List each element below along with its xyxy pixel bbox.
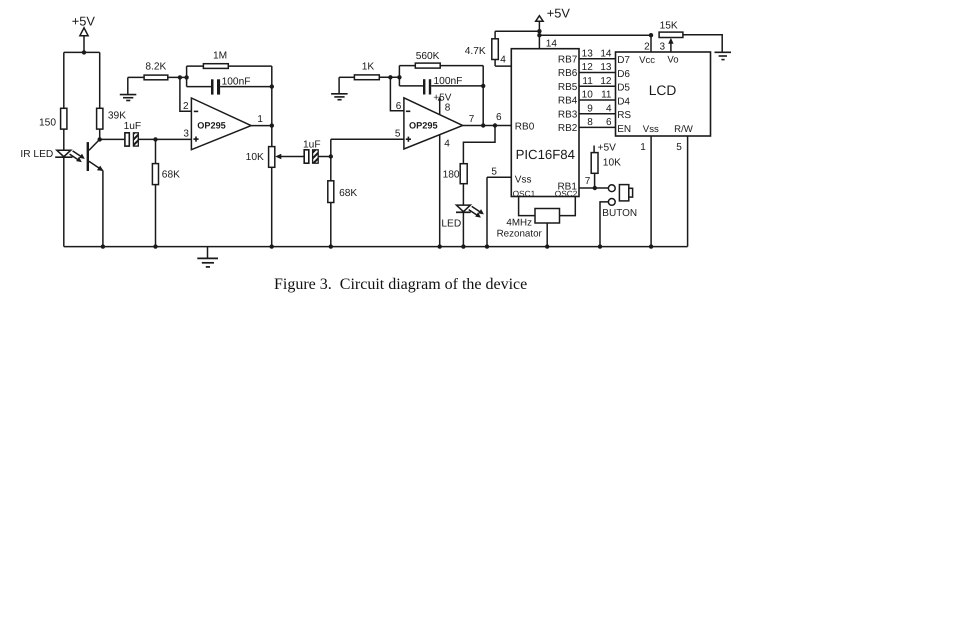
node: pin3 junction: [153, 137, 157, 141]
svg-text:15K: 15K: [660, 20, 678, 31]
wire to op-amp 2 pin 5: [331, 138, 404, 140]
node: [485, 244, 489, 248]
node: [184, 75, 188, 79]
svg-text:IR LED: IR LED: [20, 149, 53, 160]
svg-text:D7: D7: [617, 55, 630, 66]
svg-text:EN: EN: [617, 124, 631, 135]
svg-text:6: 6: [496, 112, 502, 123]
wire: [63, 129, 65, 150]
svg-text:RB2: RB2: [558, 123, 578, 134]
wire: [168, 76, 187, 78]
svg-text:8: 8: [587, 117, 593, 128]
svg-text:12: 12: [582, 62, 594, 73]
svg-text:R/W: R/W: [674, 124, 694, 135]
wire: +5V rail to 4.7K: [495, 30, 539, 32]
svg-text:5: 5: [395, 129, 401, 140]
svg-text:4: 4: [606, 103, 612, 114]
svg-text:Vss: Vss: [515, 174, 532, 185]
capacitor C1 1uF: [100, 121, 156, 146]
node: top rail of sensor branch: [64, 50, 100, 54]
wire: [63, 52, 65, 108]
svg-text:1K: 1K: [362, 62, 375, 73]
svg-text:RB6: RB6: [558, 68, 578, 79]
svg-text:+5V: +5V: [72, 13, 96, 28]
svg-text:LED: LED: [441, 218, 461, 229]
svg-text:RB1: RB1: [557, 182, 577, 193]
svg-text:11: 11: [601, 90, 612, 101]
wire: [271, 167, 273, 246]
phototransistor Q1: [88, 139, 104, 171]
svg-text:11: 11: [582, 76, 593, 87]
svg-text:5: 5: [676, 142, 682, 153]
svg-text:PIC16F84: PIC16F84: [516, 147, 575, 162]
wire: +5V rail to LCD Vcc: [539, 34, 651, 36]
node: [329, 244, 333, 248]
resistor 39K: [97, 108, 127, 129]
light arrows from LED: [469, 206, 484, 217]
pushbutton BUTON: [600, 185, 637, 247]
svg-text:560K: 560K: [416, 51, 440, 62]
svg-text:9: 9: [587, 103, 593, 114]
svg-text:3: 3: [659, 41, 665, 52]
svg-text:39K: 39K: [108, 110, 126, 121]
potentiometer 10K: [246, 147, 305, 168]
svg-text:RB4: RB4: [558, 96, 578, 107]
wire: feedback right vertical: [482, 66, 484, 126]
node: [649, 244, 653, 248]
svg-text:1uF: 1uF: [124, 121, 142, 132]
svg-text:1: 1: [257, 114, 263, 125]
svg-text:RS: RS: [617, 110, 631, 121]
svg-text:+5V: +5V: [598, 142, 617, 153]
wire to LED branch: [463, 126, 495, 164]
svg-text:4MHz: 4MHz: [506, 217, 532, 228]
svg-text:2: 2: [183, 101, 189, 112]
svg-text:1M: 1M: [213, 50, 227, 61]
node: [461, 244, 465, 248]
wire: [99, 52, 101, 108]
resistor 1M feedback: [187, 50, 272, 68]
wire: emitter down: [102, 171, 104, 247]
svg-text:D5: D5: [617, 83, 630, 94]
svg-text:150: 150: [39, 117, 56, 128]
svg-text:13: 13: [600, 62, 612, 73]
svg-text:6: 6: [396, 101, 402, 112]
wire: LCD Vcc pin 2: [644, 33, 653, 52]
node: [388, 75, 392, 79]
node: [178, 75, 182, 79]
svg-text:4: 4: [500, 55, 506, 66]
IR LED D1: [20, 149, 72, 160]
svg-text:8.2K: 8.2K: [145, 62, 166, 73]
wire: [462, 212, 464, 246]
svg-text:2: 2: [644, 41, 650, 52]
resistor 180: [443, 164, 468, 184]
svg-text:D4: D4: [617, 96, 630, 107]
wire: [379, 76, 399, 78]
node: [397, 75, 401, 79]
svg-text:+5V: +5V: [547, 6, 571, 21]
wire: [271, 126, 273, 147]
svg-text:10K: 10K: [246, 152, 264, 163]
node: [481, 123, 485, 127]
svg-text:Vo: Vo: [667, 55, 678, 66]
svg-text:5: 5: [491, 167, 497, 178]
capacitor C3 1uF coupling: [303, 139, 331, 163]
wire to op-amp pin 3: [156, 138, 192, 140]
wire: U2 output to PIC RB0: [463, 125, 512, 127]
svg-text:10K: 10K: [603, 158, 621, 169]
svg-text:7: 7: [469, 114, 475, 125]
svg-text:1uF: 1uF: [303, 139, 321, 150]
svg-text:Vcc: Vcc: [639, 55, 655, 66]
svg-text:1: 1: [640, 142, 646, 153]
resistor 68K (stage 2 bias): [328, 181, 358, 247]
svg-text:68K: 68K: [162, 170, 180, 181]
svg-text:RB0: RB0: [515, 121, 535, 132]
wire: 15K to ground: [683, 35, 722, 52]
svg-text:Vss: Vss: [643, 124, 659, 135]
node: [598, 244, 602, 248]
wire: LCD Vss pin 1 to ground rail: [640, 136, 651, 247]
svg-text:RB3: RB3: [558, 109, 578, 120]
ground rail (bottom): [64, 246, 688, 248]
resistor 4.7K (MCLR pullup): [465, 31, 512, 66]
svg-text:OP295: OP295: [409, 121, 438, 131]
potentiometer 15K contrast: [659, 20, 683, 37]
resistor 10K pullup RB1: [591, 142, 621, 188]
wire: [339, 76, 354, 78]
resistor 1K: [354, 62, 379, 80]
svg-text:8: 8: [445, 103, 451, 114]
wire: LCD Vo pin 3 wiper arrow: [659, 38, 673, 52]
ground (8.2K input): [120, 77, 137, 100]
resistor 560K feedback: [399, 51, 483, 68]
capacitor 100nF feedback 2: [399, 76, 485, 94]
wire: LCD R/W pin 5 to ground rail: [676, 136, 687, 247]
wire to op-amp pin 2: [180, 77, 192, 111]
op-amp U2 OP295: [395, 98, 475, 149]
PIC-LCD bus wires with pin numbers: [558, 49, 631, 67]
svg-text:3: 3: [183, 129, 189, 140]
+5V supply (PIC / LCD): [536, 6, 571, 49]
svg-text:Rezonator: Rezonator: [497, 228, 543, 239]
svg-text:D6: D6: [617, 69, 630, 80]
resistor 150: [39, 108, 67, 129]
node: [545, 244, 549, 248]
node: [438, 244, 442, 248]
node: [270, 244, 274, 248]
wire: OSC1 to resonator: [519, 197, 535, 216]
wire: [63, 157, 65, 246]
node: [101, 244, 105, 248]
resistor 8.2K: [144, 62, 168, 80]
node: [329, 154, 333, 158]
wire: output pin 1: [251, 125, 272, 127]
caption: [274, 276, 774, 294]
svg-text:100nF: 100nF: [222, 76, 251, 87]
ground (1K input): [331, 77, 348, 99]
wire: [128, 76, 144, 78]
svg-text:14: 14: [600, 49, 612, 60]
IC PIC16F84: [511, 39, 579, 199]
node: [153, 244, 157, 248]
svg-text:13: 13: [582, 49, 594, 60]
wire: RB1 pin 7: [579, 176, 608, 190]
pin 8 +5V supply of U2: [433, 93, 451, 115]
wire: feedback right vertical: [271, 66, 273, 126]
svg-text:LCD: LCD: [649, 83, 677, 98]
pin 4 ground wire of U2: [440, 135, 451, 247]
svg-text:180: 180: [443, 169, 460, 180]
IC LCD module: [616, 52, 711, 136]
svg-text:BUTON: BUTON: [602, 208, 637, 219]
svg-text:6: 6: [606, 117, 612, 128]
ground (15K): [715, 52, 732, 59]
node: collector junction: [98, 137, 102, 141]
op-amp U1 OP295: [183, 98, 263, 150]
LED indicator: [441, 205, 470, 229]
svg-text:14: 14: [546, 39, 558, 50]
svg-text:RB7: RB7: [558, 54, 578, 65]
svg-text:OSC1: OSC1: [513, 188, 536, 198]
svg-text:10: 10: [582, 90, 594, 101]
node: [493, 123, 497, 127]
wire: feedback branch vertical: [398, 66, 400, 86]
wire: [330, 139, 332, 181]
wire: Vss of PIC to ground: [487, 167, 511, 247]
4MHz resonator: [497, 209, 560, 247]
svg-text:4.7K: 4.7K: [465, 46, 486, 57]
wire: OSC2 to resonator: [560, 197, 576, 216]
svg-text:7: 7: [585, 176, 591, 187]
capacitor 100nF feedback: [187, 76, 274, 94]
svg-text:68K: 68K: [339, 188, 357, 199]
ground (main rail): [197, 247, 218, 267]
wire: [462, 184, 464, 205]
svg-text:4: 4: [444, 138, 450, 149]
node: [270, 123, 274, 127]
wire to op-amp pin 6: [390, 77, 404, 111]
svg-text:12: 12: [600, 76, 612, 87]
wire: feedback branch vertical: [186, 66, 188, 87]
wire: [99, 129, 101, 139]
+5V supply (sensor branch): [72, 13, 96, 52]
svg-text:RB5: RB5: [558, 82, 578, 93]
svg-text:OP295: OP295: [197, 121, 226, 131]
resistor 68K (input bias): [152, 139, 180, 246]
light arrows from IR LED: [70, 151, 85, 162]
